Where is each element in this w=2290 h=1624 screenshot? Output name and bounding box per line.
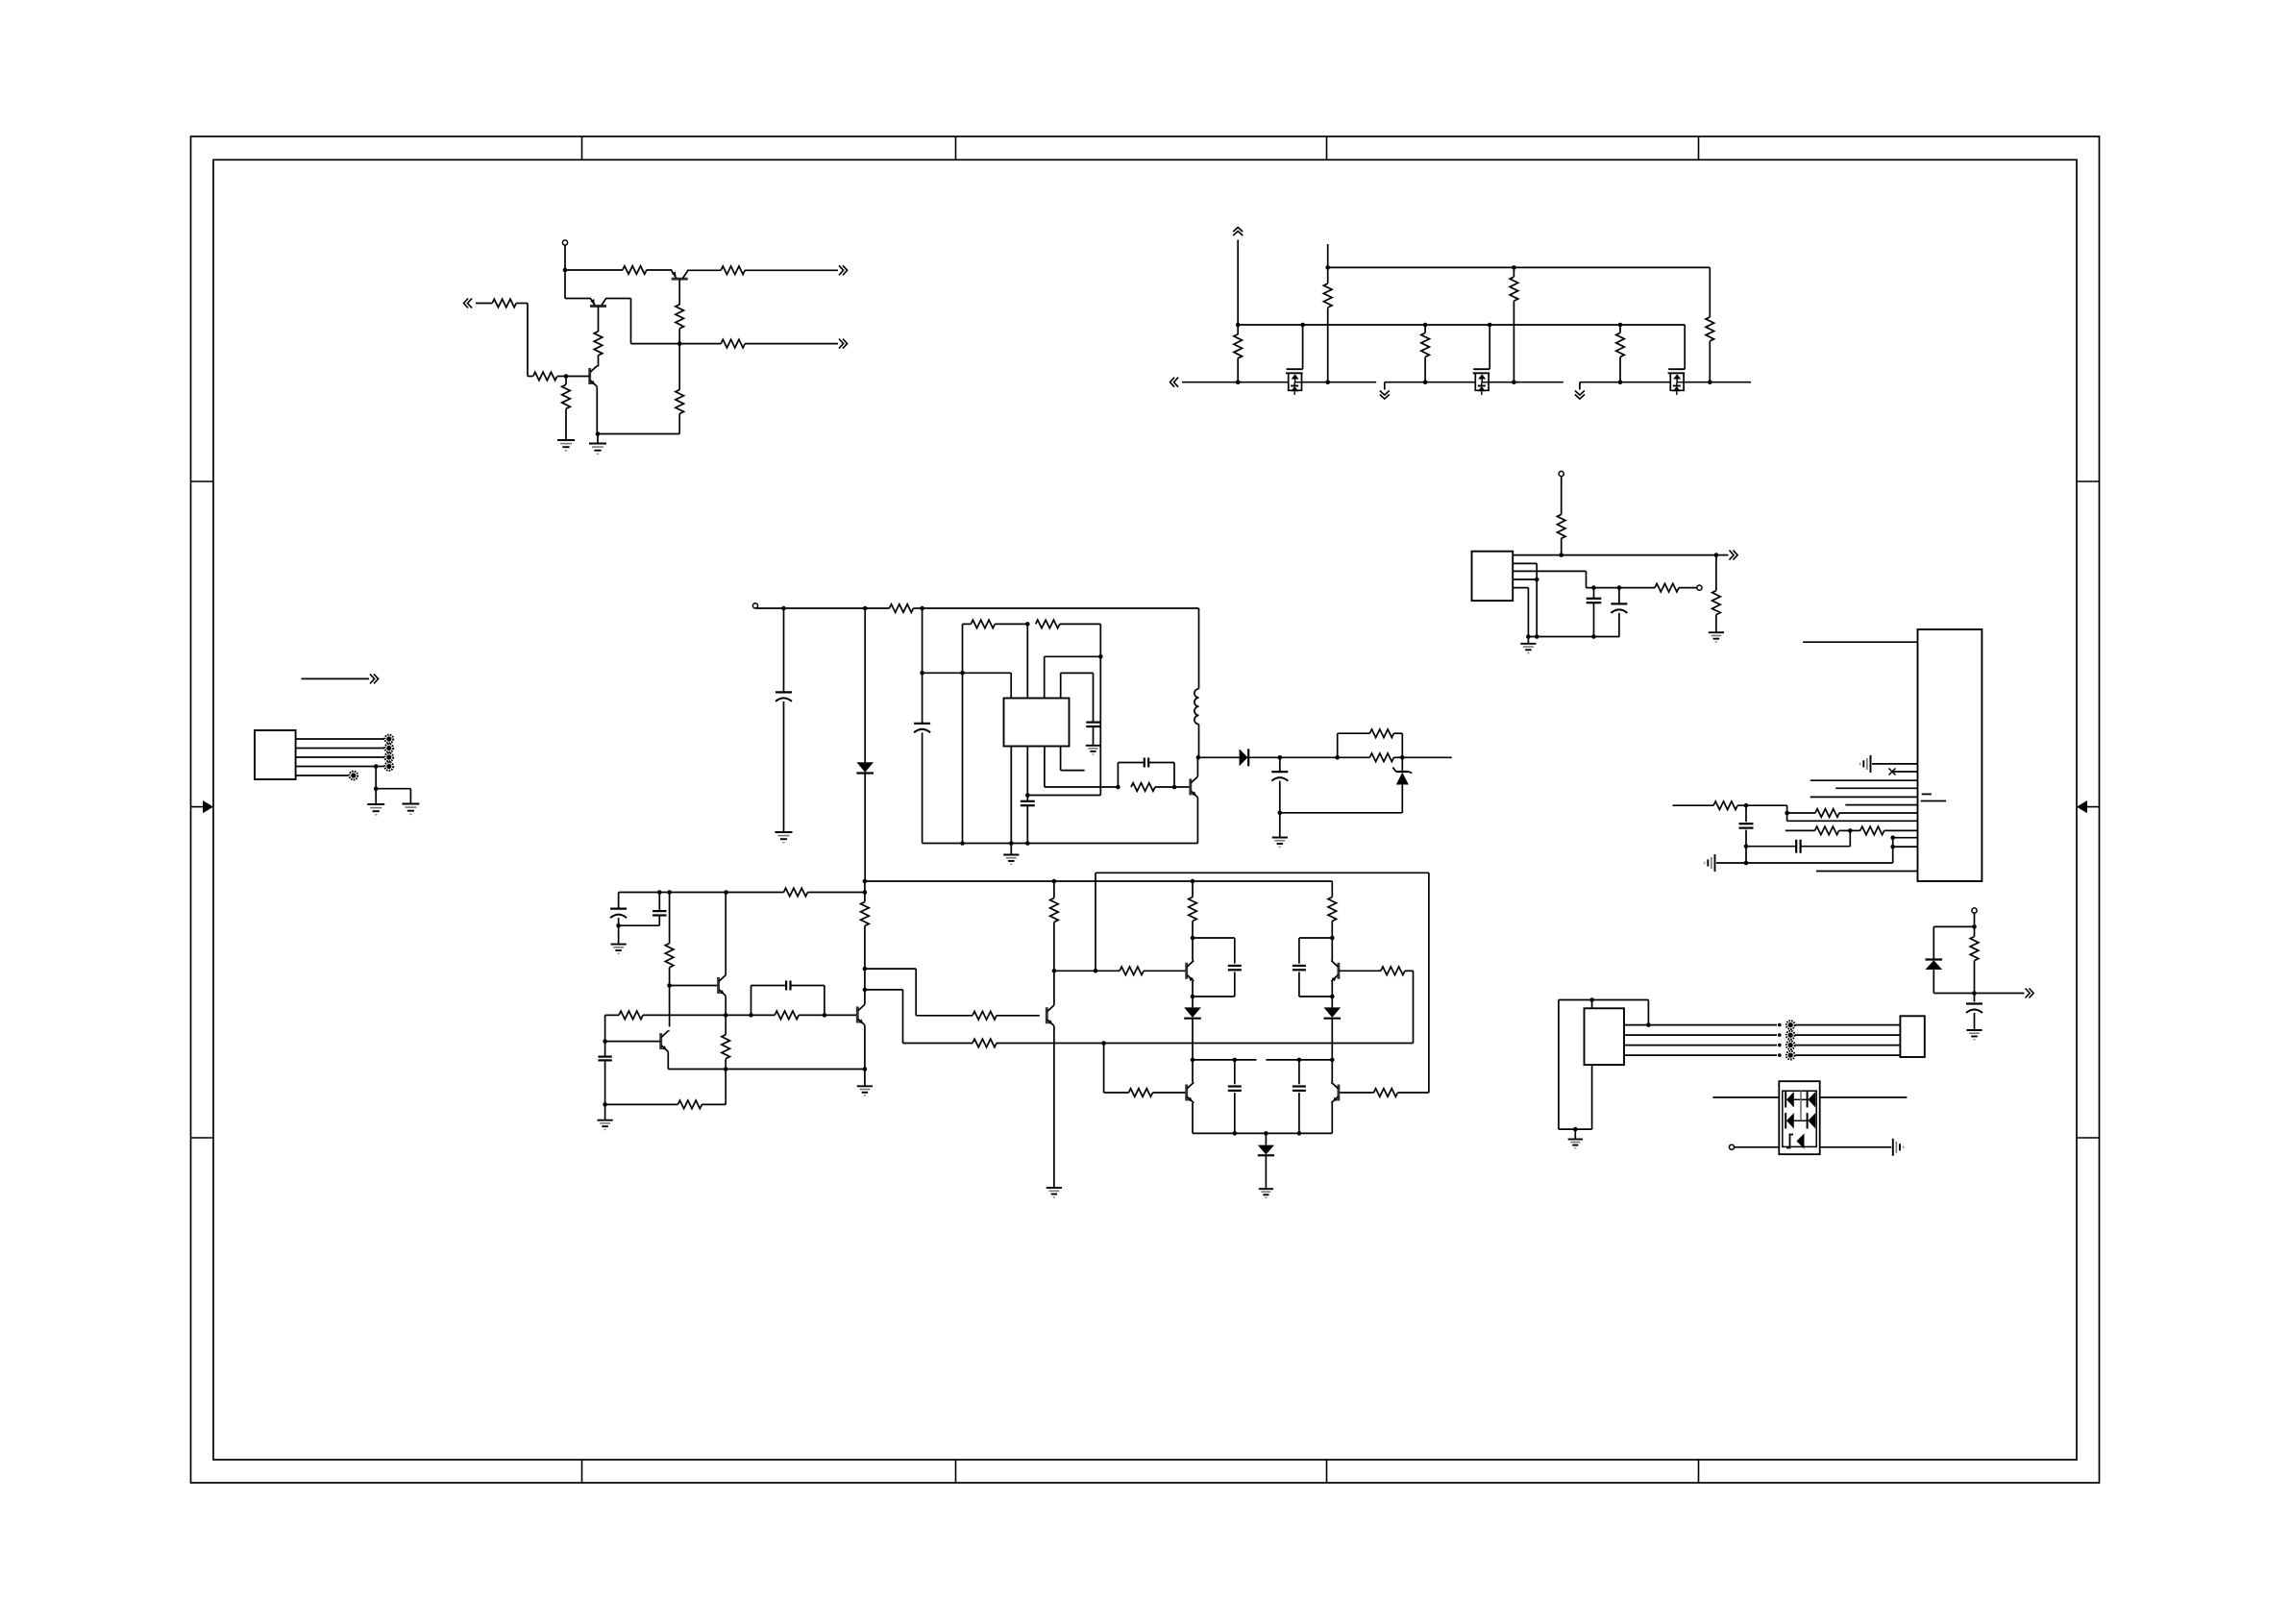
bridge inner wires <box>1794 1098 1808 1100</box>
wire <box>1787 812 1815 814</box>
ground <box>1520 643 1536 645</box>
wire <box>1933 925 1974 927</box>
wire pin5 <box>1835 787 1917 789</box>
wire <box>1795 1024 1900 1026</box>
frame tick top 4 <box>1698 136 1700 160</box>
node <box>749 1013 753 1018</box>
node <box>596 431 601 436</box>
bridge inner outline <box>1783 1091 1816 1146</box>
wire pin4 <box>1810 779 1918 781</box>
resistor R45 <box>1129 1089 1153 1097</box>
node <box>1172 785 1177 790</box>
wire top pin <box>1591 1000 1593 1009</box>
pin mark <box>1921 800 1946 802</box>
wire J3 pin 3 <box>1624 1045 1777 1046</box>
diode D6 <box>1331 997 1333 1007</box>
wire emitter Q3 <box>590 381 595 385</box>
wire <box>1618 613 1620 637</box>
wire <box>1327 267 1329 283</box>
ground <box>598 1120 613 1121</box>
off-page input chevron <box>468 299 473 308</box>
resistor R19 <box>1131 783 1155 792</box>
node <box>564 374 569 379</box>
wire emitter QD <box>1053 1026 1055 1189</box>
ground <box>589 443 606 445</box>
ground <box>1272 837 1288 839</box>
node <box>1196 755 1201 760</box>
resistor R44 <box>1381 967 1405 975</box>
wire <box>668 1030 669 1032</box>
wire <box>604 1104 606 1120</box>
frame arrow right <box>2087 806 2100 808</box>
channel arrow <box>1292 374 1299 379</box>
wire <box>864 608 866 762</box>
wire <box>678 344 680 390</box>
wire <box>1327 308 1329 382</box>
connector J3 body <box>1585 1008 1625 1065</box>
resistor R26 <box>1815 809 1839 818</box>
transistor Q4 NPN <box>1189 778 1192 795</box>
wire <box>606 298 631 300</box>
QD base path wire <box>865 968 916 970</box>
off-page output chevron <box>839 339 844 349</box>
pin pad 5 <box>349 772 357 780</box>
wire <box>1574 1129 1576 1139</box>
connector J2 body <box>1918 629 1982 881</box>
wire <box>995 623 1027 625</box>
capacitor C21 <box>1293 965 1306 967</box>
resistor R8 <box>533 372 557 381</box>
wire <box>1561 477 1563 515</box>
wire <box>1192 938 1194 961</box>
node <box>1094 969 1098 973</box>
wire <box>1405 970 1414 972</box>
wire <box>1192 1060 1194 1082</box>
node <box>1535 578 1539 582</box>
wire <box>864 926 866 970</box>
wire collector <box>1196 757 1198 776</box>
node <box>374 764 379 769</box>
stub pin <box>1060 747 1062 771</box>
resistor R33 <box>775 1011 799 1020</box>
wire <box>791 985 825 987</box>
wire gate <box>1287 368 1303 370</box>
frame tick top 1 <box>581 136 583 160</box>
wire <box>1060 623 1101 625</box>
wire <box>1331 1019 1333 1060</box>
wire <box>597 434 599 444</box>
wire <box>1331 938 1333 961</box>
wire <box>687 269 721 271</box>
wire <box>1746 862 1893 864</box>
wire <box>1234 972 1236 997</box>
bottom bus wire <box>923 843 1198 845</box>
wire <box>825 1014 857 1016</box>
node <box>863 606 868 611</box>
wire stub <box>1327 244 1329 267</box>
resistor R4 <box>594 332 603 356</box>
wire <box>1974 961 1976 994</box>
node <box>1890 845 1895 849</box>
node <box>1488 323 1492 328</box>
wire <box>1974 994 1976 1002</box>
resistor R14 <box>1616 332 1625 357</box>
wire <box>725 893 726 975</box>
wire pin <box>1044 747 1046 788</box>
capacitor C6 polarized <box>922 673 923 724</box>
node <box>920 671 924 676</box>
body box <box>1289 373 1302 390</box>
transistor Q10 NPN <box>1337 1085 1340 1101</box>
wire emitter <box>1196 798 1198 844</box>
terminal P5 <box>1972 908 1977 913</box>
off-page chevron down <box>1380 391 1390 396</box>
wire bottom pin <box>1591 1065 1593 1129</box>
off-page chevron <box>2026 989 2031 998</box>
wire <box>922 732 923 843</box>
wire <box>922 608 923 673</box>
wire emitter Q7 <box>864 1025 866 1070</box>
wire <box>702 1103 726 1105</box>
pin pad 1 <box>384 735 393 744</box>
pin pad <box>1786 1041 1795 1049</box>
node <box>1714 553 1719 557</box>
off-page output chevron <box>839 265 844 275</box>
node <box>1778 1044 1782 1047</box>
off-page chevron <box>1730 551 1735 560</box>
node <box>1778 1033 1782 1037</box>
wire <box>1331 1060 1333 1082</box>
wire <box>1745 805 1747 822</box>
off-page chevron up <box>1233 232 1243 236</box>
wire pin 1 <box>296 738 384 740</box>
wire <box>1513 301 1514 382</box>
transistor Q2 PNP <box>672 278 688 281</box>
wire <box>1401 757 1403 772</box>
node <box>724 1067 728 1071</box>
body diode <box>1673 385 1681 387</box>
wire <box>963 623 972 625</box>
resistor R24 <box>1712 591 1721 615</box>
wire Q9 base <box>1103 1044 1105 1094</box>
node <box>1618 380 1623 384</box>
wire pin1 <box>1803 641 1917 643</box>
node <box>1233 1131 1238 1136</box>
node <box>1848 828 1853 833</box>
wire <box>1338 756 1370 758</box>
wire <box>1795 1054 1900 1056</box>
wire <box>1237 358 1239 382</box>
resistor R15 <box>1706 317 1714 341</box>
node <box>823 1013 827 1018</box>
node <box>1423 380 1428 384</box>
node <box>1233 1058 1238 1063</box>
transistor Q8 PNP <box>1185 963 1188 979</box>
bridge diode DB2 <box>1808 1092 1815 1107</box>
wire collector Q7 <box>864 969 866 1004</box>
frame tick right 1 <box>2077 480 2100 482</box>
pin pad 4 <box>384 762 393 771</box>
node <box>1591 585 1596 590</box>
node <box>1191 879 1195 884</box>
wire <box>1237 325 1239 334</box>
wire <box>1053 923 1055 972</box>
wire <box>679 343 721 345</box>
wire <box>1265 1155 1267 1189</box>
node <box>1278 755 1283 760</box>
capacitor C16 polarized <box>618 893 620 909</box>
node <box>781 606 786 611</box>
resistor R2 <box>721 266 745 275</box>
diode D2 <box>1240 749 1248 766</box>
wire <box>1592 999 1649 1001</box>
diode D1 <box>856 762 874 773</box>
nest wire <box>1060 673 1062 698</box>
wire <box>1298 972 1300 997</box>
node <box>863 879 868 884</box>
wire <box>516 303 528 305</box>
channel arrow <box>1673 374 1681 379</box>
wire <box>745 269 838 271</box>
bus path wire <box>865 989 903 991</box>
wire pin <box>1787 820 1918 822</box>
resistor R18 <box>1036 620 1060 628</box>
wire <box>923 672 1012 674</box>
node <box>1025 622 1030 627</box>
wire <box>1398 1092 1429 1094</box>
frame tick top 3 <box>1326 136 1328 160</box>
node <box>1052 969 1057 973</box>
node <box>677 341 682 346</box>
node <box>1589 997 1594 1002</box>
wire pin6 <box>1810 796 1918 798</box>
wire <box>783 701 785 832</box>
resistor R43 <box>1328 898 1337 922</box>
wire <box>1192 922 1194 939</box>
capacitor C23 <box>1298 1060 1300 1084</box>
node <box>1278 811 1283 816</box>
node <box>603 1102 607 1107</box>
resistor R37 <box>973 1012 997 1021</box>
wire <box>598 356 600 367</box>
node <box>1972 991 1977 996</box>
wire <box>1249 756 1338 758</box>
wire <box>1593 603 1595 636</box>
node <box>1098 654 1103 659</box>
node <box>1744 803 1749 808</box>
node <box>1236 323 1241 328</box>
node <box>1526 634 1531 639</box>
ground <box>1259 1188 1273 1190</box>
wire <box>1536 563 1538 636</box>
wire <box>678 414 680 434</box>
node junction <box>563 268 568 273</box>
capacitor C14 <box>1795 840 1797 853</box>
sideways ground pin2 <box>1870 755 1872 773</box>
pin pad <box>1786 1051 1795 1060</box>
node <box>724 1013 728 1018</box>
wire pin10 <box>1893 837 1918 839</box>
wire <box>1715 615 1717 633</box>
body box <box>1475 373 1489 390</box>
IC U1 body <box>1004 699 1070 747</box>
transistor QD NPN driver <box>1046 1007 1048 1023</box>
pin pad 3 <box>384 753 393 762</box>
wire <box>1619 325 1621 332</box>
capacitor C10 polarized <box>1271 771 1288 773</box>
node <box>603 1039 607 1044</box>
wire <box>1093 726 1095 746</box>
wire <box>784 607 866 609</box>
wire base Q5 <box>670 985 719 987</box>
bridge wire bottom right <box>1820 1146 1892 1148</box>
wire gnd pin <box>1010 747 1012 844</box>
wire <box>1010 844 1012 855</box>
node <box>863 890 868 895</box>
wire <box>565 409 567 441</box>
capacitor C18 <box>785 981 787 991</box>
mid bus wire <box>997 1043 1414 1045</box>
wire pin11 <box>1893 846 1918 848</box>
wire <box>962 624 964 843</box>
node <box>1744 844 1749 849</box>
pin wire <box>1513 562 1537 564</box>
wire <box>1785 829 1815 831</box>
sideways ground <box>1892 1139 1894 1156</box>
wire <box>1679 587 1697 589</box>
capacitor C19 <box>598 1055 611 1057</box>
node <box>1646 1022 1651 1027</box>
parallel R bridge <box>1337 733 1339 757</box>
frame inner border <box>213 160 2077 1460</box>
wire <box>1026 805 1028 843</box>
ground <box>611 944 627 946</box>
wire <box>751 1014 776 1016</box>
wire <box>1280 812 1403 814</box>
resistor R7 <box>492 299 516 308</box>
resistor R28 <box>1860 826 1884 835</box>
resistor R31 <box>665 944 674 968</box>
wire <box>1513 267 1514 277</box>
wire <box>1795 1045 1900 1046</box>
resistor R9 <box>562 384 571 408</box>
wire <box>1144 970 1187 972</box>
wire <box>1684 381 1751 383</box>
wire gate <box>1473 368 1490 370</box>
wire <box>1586 571 1588 587</box>
ground <box>402 803 419 805</box>
wire <box>604 1060 606 1104</box>
wire <box>1192 981 1194 997</box>
pin pad <box>1786 1031 1795 1040</box>
node <box>1264 1131 1268 1136</box>
capacitor C13 <box>1739 823 1754 824</box>
wire <box>618 925 620 944</box>
right rail wire <box>865 880 1332 882</box>
wire gate M3 <box>1684 325 1686 369</box>
wire <box>1619 357 1621 382</box>
wire <box>1279 781 1281 813</box>
wire <box>1737 804 1746 806</box>
wire <box>1385 381 1476 383</box>
wire <box>1192 1019 1194 1060</box>
wire <box>1424 325 1426 332</box>
power terminal P2 <box>752 603 757 608</box>
off-page chevron <box>370 674 375 683</box>
wire <box>1974 926 1976 936</box>
bottom row wire <box>1193 1132 1332 1134</box>
frame tick bottom 2 <box>955 1460 957 1483</box>
transistor Q11 PNP <box>1337 963 1340 979</box>
diode D4 <box>1926 958 1943 960</box>
nest wire <box>1045 655 1101 657</box>
resistor R21 <box>1369 753 1393 762</box>
channel bar <box>1286 372 1303 374</box>
resistor R13 <box>1421 332 1430 357</box>
node <box>1325 265 1330 270</box>
resistor R27 <box>1815 826 1839 835</box>
frame tick bottom 4 <box>1698 1460 1700 1483</box>
node <box>667 890 672 895</box>
node <box>1009 841 1014 846</box>
wire <box>1974 913 1976 926</box>
output wire <box>1513 554 1716 556</box>
diode D7 <box>1265 1133 1267 1144</box>
bridge rectifier BR1 outer <box>1779 1081 1819 1154</box>
wire <box>1715 555 1717 591</box>
capacitor C20 <box>1228 965 1242 967</box>
wire <box>476 303 492 305</box>
node <box>1101 1041 1106 1046</box>
power terminal P3 <box>1559 471 1564 476</box>
body diode <box>1291 385 1298 387</box>
wire <box>1709 341 1711 382</box>
resistor R36 <box>861 902 870 926</box>
resistor R16 <box>889 604 913 613</box>
rail col wire <box>1331 881 1333 898</box>
off-page input chevron <box>1174 378 1179 387</box>
wire pin7 <box>1845 804 1917 806</box>
wire <box>1746 846 1796 848</box>
node <box>863 988 868 993</box>
bridge diode DB3 <box>1786 1113 1794 1128</box>
wire long to amplifier <box>864 774 866 882</box>
node <box>1559 553 1564 557</box>
wire <box>1527 637 1529 644</box>
wire <box>678 329 680 344</box>
cap bridge <box>751 986 752 1016</box>
node <box>724 890 728 895</box>
wire pin 2 <box>296 748 384 750</box>
resistor R29 <box>1970 937 1979 961</box>
frame tick bottom 3 <box>1326 1460 1328 1483</box>
pin pad <box>1786 1021 1795 1029</box>
wire base Q11 <box>1339 970 1381 972</box>
outer nest wire <box>1099 624 1101 795</box>
resistor R40 <box>1120 967 1144 975</box>
node <box>1191 936 1195 941</box>
wire base Q2 <box>678 279 680 305</box>
wire <box>1302 381 1377 383</box>
ground <box>557 439 575 441</box>
wire collector Q3 <box>597 365 598 367</box>
node <box>1535 634 1539 639</box>
wire collector Q6 <box>669 986 671 1027</box>
wire <box>864 1070 866 1087</box>
wire <box>1716 554 1729 556</box>
node <box>1573 1127 1578 1132</box>
wire <box>658 916 660 926</box>
